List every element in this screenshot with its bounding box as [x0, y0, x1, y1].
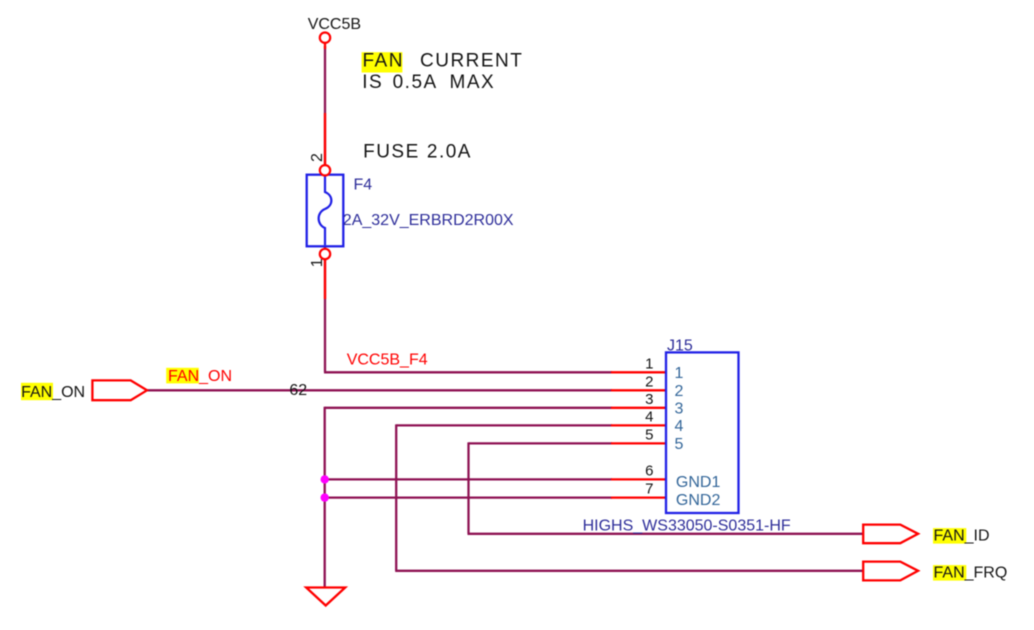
svg-text:FAN_ON: FAN_ON	[21, 384, 85, 401]
svg-text:2: 2	[309, 153, 326, 162]
svg-text:4: 4	[645, 409, 653, 426]
svg-text:1: 1	[645, 356, 653, 373]
svg-text:GND2: GND2	[676, 492, 721, 509]
svg-text:FAN_ON: FAN_ON	[168, 368, 232, 385]
svg-text:2: 2	[645, 374, 653, 391]
svg-text:F4: F4	[354, 177, 373, 194]
svg-text:1: 1	[309, 258, 326, 267]
svg-text:4: 4	[675, 418, 684, 435]
svg-text:6: 6	[645, 463, 653, 480]
svg-text:2: 2	[675, 383, 684, 400]
svg-text:MAX: MAX	[450, 72, 496, 93]
svg-text:FAN: FAN	[363, 51, 404, 72]
svg-text:FAN_ID: FAN_ID	[934, 528, 990, 545]
svg-text:HIGHS_WS33050-S0351-HF: HIGHS_WS33050-S0351-HF	[583, 517, 791, 534]
svg-text:62: 62	[289, 382, 307, 399]
svg-text:5: 5	[645, 427, 653, 444]
svg-text:3: 3	[675, 400, 684, 417]
svg-text:0.5A: 0.5A	[393, 72, 438, 93]
svg-text:GND1: GND1	[676, 474, 721, 491]
svg-text:1: 1	[675, 365, 684, 382]
svg-text:2A_32V_ERBRD2R00X: 2A_32V_ERBRD2R00X	[343, 212, 514, 229]
svg-text:VCC5B_F4: VCC5B_F4	[347, 352, 428, 369]
svg-text:3: 3	[645, 391, 653, 408]
svg-text:5: 5	[675, 436, 684, 453]
svg-text:2.0A: 2.0A	[427, 141, 472, 162]
svg-text:CURRENT: CURRENT	[420, 51, 523, 72]
svg-text:FAN_FRQ: FAN_FRQ	[934, 565, 1008, 582]
svg-text:FUSE: FUSE	[363, 141, 420, 162]
svg-text:VCC5B: VCC5B	[308, 16, 361, 33]
svg-text:J15: J15	[667, 338, 693, 355]
svg-text:IS: IS	[362, 72, 383, 93]
svg-text:7: 7	[645, 481, 653, 498]
